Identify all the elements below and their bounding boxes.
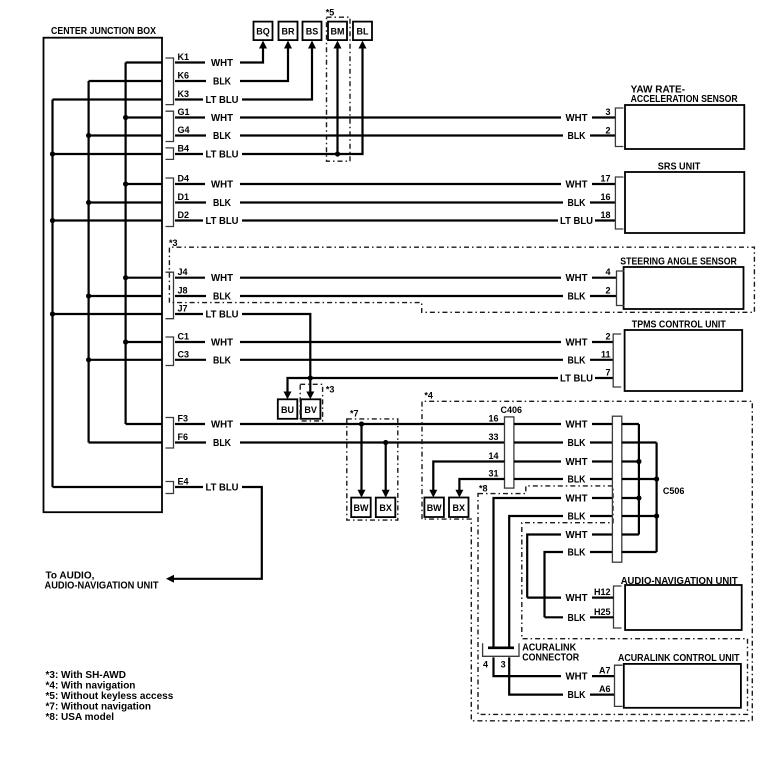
- svg-text:*3: With SH-AWD: *3: With SH-AWD: [46, 670, 126, 681]
- svg-text:WHT: WHT: [566, 113, 588, 124]
- connector BW (*7): [351, 498, 371, 517]
- svg-text:F3: F3: [178, 414, 189, 424]
- wire bus1 to D2: [53, 219, 163, 221]
- wire bus2 to J8: [89, 295, 162, 297]
- svg-text:BLK: BLK: [568, 131, 587, 142]
- option box *4 dash outline: [422, 401, 752, 721]
- acuralink bracket: [615, 665, 623, 706]
- arrow into BM: [334, 41, 342, 49]
- svg-text:17: 17: [600, 174, 610, 184]
- connector bracket K group: [166, 58, 174, 105]
- svg-text:BU: BU: [281, 405, 294, 415]
- wire K6 BLK to BR: [175, 49, 288, 82]
- svg-text:3: 3: [605, 107, 610, 117]
- svg-text:H12: H12: [594, 587, 611, 597]
- svg-text:33: 33: [488, 432, 498, 442]
- C506 right jumpers rows1-8: [622, 424, 657, 552]
- wire K3 LT BLU to BS: [175, 49, 312, 100]
- arrow into BX (*4): [455, 490, 463, 498]
- svg-text:BX: BX: [379, 503, 392, 513]
- svg-text:*4: With navigation: *4: With navigation: [46, 681, 136, 692]
- wire row8 BLK to H25: [545, 552, 613, 617]
- junction dot bus1-J7: [50, 311, 55, 316]
- svg-text:BLK: BLK: [213, 77, 232, 88]
- wire row4 pin31 to BX (*4): [459, 479, 612, 490]
- junction dot bus3-D4: [123, 181, 128, 186]
- junction dot bus1-B4: [50, 151, 55, 156]
- connector BQ: [254, 22, 273, 40]
- option box *3 dash outline (steering): [169, 247, 754, 312]
- wire D2 LT BLU to SRS pin 18: [175, 219, 615, 221]
- svg-text:WHT: WHT: [211, 113, 233, 124]
- option box *3 around BV: [300, 384, 322, 421]
- svg-text:J7: J7: [178, 304, 188, 314]
- svg-text:WHT: WHT: [566, 593, 588, 604]
- C406 connector bar: [505, 417, 514, 488]
- wire bus2 to D1: [89, 201, 162, 203]
- junction dot bus2-J8: [86, 293, 91, 298]
- svg-text:BLK: BLK: [213, 131, 232, 142]
- yaw sensor bracket: [615, 108, 623, 147]
- wire G4 BLK to yaw sensor pin 2: [175, 134, 615, 136]
- svg-text:BLK: BLK: [568, 292, 587, 303]
- svg-text:BLK: BLK: [568, 690, 587, 701]
- connector bracket D group: [166, 178, 174, 227]
- wire bus2 to C3: [89, 359, 162, 361]
- option box *7 dash outline: [347, 419, 398, 520]
- arrow into BW (*7): [358, 490, 366, 498]
- svg-text:K6: K6: [178, 71, 190, 81]
- option box *5 dash outline: [327, 17, 351, 161]
- tpms control unit box: [625, 330, 743, 391]
- svg-text:BV: BV: [304, 405, 317, 415]
- svg-text:4: 4: [605, 267, 610, 277]
- svg-text:BLK: BLK: [568, 548, 587, 559]
- svg-text:*5: *5: [326, 8, 335, 18]
- svg-text:K3: K3: [178, 89, 190, 99]
- svg-text:16: 16: [600, 192, 610, 202]
- tpms bracket: [613, 334, 621, 387]
- wire B4 LT BLU to BM and BL: [175, 49, 363, 155]
- svg-text:LT BLU: LT BLU: [206, 95, 239, 106]
- wire J4 WHT to steering angle sensor pin 4: [175, 277, 617, 279]
- svg-text:WHT: WHT: [566, 338, 588, 349]
- svg-text:WHT: WHT: [566, 273, 588, 284]
- wire D1 BLK to SRS pin 16: [175, 201, 615, 203]
- junction dot F3-BW: [359, 421, 364, 426]
- wire bus2 to G4: [89, 134, 162, 136]
- svg-text:D4: D4: [178, 174, 190, 184]
- wire bus2 to F6: [89, 441, 162, 443]
- svg-text:BX: BX: [453, 503, 466, 513]
- junction dot bus2-D1: [86, 200, 91, 205]
- wire bus3 to C1: [126, 341, 162, 343]
- arrow into BS: [308, 41, 316, 49]
- wire acuralink pin3 to A6: [509, 657, 614, 694]
- wire bus3 to D4: [126, 183, 162, 185]
- svg-text:WHT: WHT: [566, 420, 588, 431]
- svg-text:LT BLU: LT BLU: [206, 310, 239, 321]
- svg-text:11: 11: [601, 349, 611, 359]
- connector BR: [279, 22, 298, 40]
- C506 connector bar: [612, 416, 621, 562]
- wire G1 WHT to yaw sensor pin 3: [175, 116, 615, 118]
- svg-text:BW: BW: [427, 503, 442, 513]
- wire H12 WHT: [527, 596, 613, 598]
- svg-text:WHT: WHT: [211, 420, 233, 431]
- wire row6 BLK acuralink pin3: [509, 516, 612, 647]
- wire bus1 to K3: [53, 98, 163, 100]
- acuralink connector bar: [488, 646, 514, 649]
- svg-text:ACCELERATION SENSOR: ACCELERATION SENSOR: [631, 94, 739, 105]
- svg-text:BLK: BLK: [568, 613, 587, 624]
- svg-text:BQ: BQ: [256, 27, 270, 37]
- acuralink connector housing: [483, 643, 519, 656]
- junction dot busA row3: [636, 459, 641, 464]
- bus LT BLU (inner vertical 1): [51, 100, 53, 488]
- svg-text:SRS UNIT: SRS UNIT: [658, 162, 701, 173]
- connector BU: [278, 399, 298, 419]
- arrow into BU: [284, 392, 292, 400]
- bus WHT (inner vertical 3): [124, 63, 126, 425]
- svg-text:LT BLU: LT BLU: [206, 483, 239, 494]
- wire row1 WHT C406-C506: [514, 423, 613, 425]
- wire branch to BX (*7): [385, 443, 387, 491]
- connector BM: [328, 22, 347, 40]
- wire C3 BLK to TPMS pin 11: [175, 359, 613, 361]
- wire J8 BLK to steering angle sensor pin 2: [175, 295, 617, 297]
- svg-text:BLK: BLK: [213, 198, 232, 209]
- wire bus1 to B4: [53, 153, 163, 155]
- wire bus3 to F3: [126, 423, 162, 425]
- junction dot busB row4: [654, 476, 659, 481]
- svg-text:F6: F6: [178, 432, 189, 442]
- arrow to audio note: [166, 575, 174, 583]
- wire row7 WHT to H12: [527, 535, 612, 598]
- C506 bus B (BLK): [655, 443, 657, 553]
- junction dot B4-BM: [335, 151, 340, 156]
- svg-text:A6: A6: [599, 684, 611, 694]
- svg-text:4: 4: [483, 660, 488, 670]
- svg-text:2: 2: [605, 286, 610, 296]
- option box *8 dash outline: [478, 486, 748, 715]
- wire bus3 to J4: [126, 277, 162, 279]
- junction dot busA row5: [636, 495, 641, 500]
- svg-text:B4: B4: [178, 144, 190, 154]
- wire E4 LT BLU to audio: [174, 487, 262, 579]
- svg-text:WHT: WHT: [211, 338, 233, 349]
- wire bus3 to G1: [126, 116, 162, 118]
- arrow into BX (*7): [382, 490, 390, 498]
- svg-text:AUDIO-NAVIGATION UNIT: AUDIO-NAVIGATION UNIT: [45, 581, 159, 592]
- svg-text:WHT: WHT: [566, 672, 588, 683]
- svg-text:BLK: BLK: [568, 198, 587, 209]
- svg-text:LT BLU: LT BLU: [206, 150, 239, 161]
- wire bus1 to E4: [53, 486, 163, 488]
- audio-nav bracket: [614, 586, 622, 628]
- svg-text:WHT: WHT: [211, 180, 233, 191]
- connector BX (*4): [449, 498, 469, 518]
- svg-text:2: 2: [605, 126, 610, 136]
- connector bracket J group: [166, 272, 174, 319]
- svg-text:H25: H25: [594, 607, 611, 617]
- svg-text:*7: Without navigation: *7: Without navigation: [46, 702, 151, 713]
- svg-text:CONNECTOR: CONNECTOR: [522, 653, 580, 664]
- svg-text:BM: BM: [331, 27, 345, 37]
- svg-text:BS: BS: [306, 27, 319, 37]
- svg-text:BLK: BLK: [213, 438, 232, 449]
- wire F6 BLK to C406 pin 33: [175, 441, 505, 443]
- svg-text:BLK: BLK: [568, 475, 587, 486]
- arrow into BL: [359, 41, 367, 49]
- svg-text:STEERING ANGLE SENSOR: STEERING ANGLE SENSOR: [620, 257, 737, 268]
- connector bracket G group: [166, 111, 174, 141]
- svg-text:WHT: WHT: [566, 180, 588, 191]
- junction dot F6-BX: [383, 440, 388, 445]
- junction dot bus2-G4: [86, 133, 91, 138]
- svg-text:7: 7: [605, 368, 610, 378]
- svg-text:14: 14: [488, 451, 498, 461]
- svg-text:2: 2: [605, 332, 610, 342]
- svg-text:TPMS CONTROL UNIT: TPMS CONTROL UNIT: [632, 320, 726, 331]
- junction dot J7 branch: [308, 375, 313, 380]
- svg-text:31: 31: [488, 469, 498, 479]
- svg-text:16: 16: [488, 414, 498, 424]
- junction dot bus3-J4: [123, 275, 128, 280]
- svg-text:WHT: WHT: [566, 530, 588, 541]
- wire H25 BLK: [545, 616, 614, 618]
- wire acuralink pin4 to A7: [494, 657, 615, 676]
- svg-text:LT BLU: LT BLU: [560, 216, 593, 227]
- svg-text:*5: Without keyless access: *5: Without keyless access: [46, 691, 174, 702]
- svg-text:18: 18: [600, 210, 610, 220]
- wire row3 pin14 to BW (*4): [433, 462, 612, 491]
- svg-text:C406: C406: [501, 405, 523, 415]
- svg-text:CENTER JUNCTION BOX: CENTER JUNCTION BOX: [51, 26, 156, 37]
- svg-text:J8: J8: [178, 286, 188, 296]
- svg-text:*8: USA model: *8: USA model: [46, 712, 115, 723]
- connector BX (*7): [376, 498, 396, 517]
- steering bracket: [617, 271, 625, 306]
- wire K1 WHT to BQ: [175, 49, 263, 63]
- junction dot bus2-C3: [86, 357, 91, 362]
- svg-text:3: 3: [501, 660, 506, 670]
- svg-text:D1: D1: [178, 192, 190, 202]
- svg-text:BLK: BLK: [568, 512, 587, 523]
- junction dot bus3-C1: [123, 339, 128, 344]
- bus BLK (inner vertical 2): [87, 81, 89, 443]
- steering angle sensor box: [624, 267, 744, 309]
- connector BL: [353, 22, 372, 40]
- connector bracket C group: [166, 337, 174, 366]
- svg-text:BLK: BLK: [568, 355, 587, 366]
- arrow into BQ: [259, 41, 267, 49]
- svg-text:K1: K1: [178, 52, 190, 62]
- svg-text:*3: *3: [169, 238, 178, 248]
- connector BS: [303, 22, 322, 40]
- junction dot bus1-D2: [50, 218, 55, 223]
- svg-text:BL: BL: [357, 27, 369, 37]
- wire J7 LT BLU to BU BV and TPMS pin 7: [175, 314, 613, 392]
- svg-text:*4: *4: [424, 391, 433, 401]
- svg-text:WHT: WHT: [211, 58, 233, 69]
- wire branch to BW (*7): [360, 424, 362, 490]
- wire C1 WHT to TPMS pin 2: [175, 341, 613, 343]
- svg-text:BLK: BLK: [568, 438, 587, 449]
- junction dot bus3-G1: [123, 115, 128, 120]
- svg-text:WHT: WHT: [566, 457, 588, 468]
- svg-text:BR: BR: [282, 27, 295, 37]
- arrow into BR: [284, 41, 292, 49]
- svg-text:C1: C1: [178, 332, 190, 342]
- svg-text:*8: *8: [479, 484, 488, 494]
- svg-text:BLK: BLK: [213, 355, 232, 366]
- svg-text:ACURALINK CONTROL UNIT: ACURALINK CONTROL UNIT: [618, 653, 740, 664]
- connector bracket E4: [166, 482, 174, 494]
- center junction box outline: [44, 38, 163, 513]
- connector BV: [301, 399, 321, 419]
- svg-text:*3: *3: [326, 385, 335, 395]
- svg-text:E4: E4: [178, 477, 189, 487]
- connector bracket B4: [166, 148, 174, 160]
- svg-text:G4: G4: [178, 125, 190, 135]
- connector BW (*4): [424, 498, 444, 518]
- svg-text:D2: D2: [178, 210, 190, 220]
- srs bracket: [615, 177, 623, 229]
- wire bus2 to K6: [89, 80, 162, 82]
- arrow into BV: [306, 392, 314, 400]
- wire row2 BLK C406-C506: [514, 441, 613, 443]
- wire bus1 to J7: [53, 313, 163, 315]
- arrow into BW (*4): [429, 490, 437, 498]
- C506 bus A (WHT): [638, 424, 640, 535]
- audio-navigation unit box: [625, 585, 742, 630]
- svg-text:LT BLU: LT BLU: [206, 216, 239, 227]
- yaw rate-acceleration sensor box: [625, 105, 744, 149]
- svg-text:BLK: BLK: [213, 292, 232, 303]
- svg-text:J4: J4: [178, 267, 188, 277]
- junction dot busB row6: [654, 513, 659, 518]
- wire bus3 to K1: [126, 61, 162, 63]
- wire row5 WHT acuralink pin4: [494, 498, 613, 647]
- connector bracket F group: [166, 418, 174, 449]
- srs unit box: [625, 172, 744, 233]
- svg-text:C3: C3: [178, 349, 190, 359]
- svg-text:LT BLU: LT BLU: [560, 374, 593, 385]
- svg-text:WHT: WHT: [211, 273, 233, 284]
- svg-text:*7: *7: [350, 408, 359, 418]
- svg-text:C506: C506: [663, 486, 685, 496]
- svg-text:A7: A7: [599, 666, 611, 676]
- wire D4 WHT to SRS pin 17: [175, 183, 615, 185]
- svg-text:BW: BW: [354, 503, 369, 513]
- svg-text:G1: G1: [178, 107, 190, 117]
- acuralink control unit box: [624, 664, 741, 708]
- wire F3 WHT to C406 pin 16: [175, 423, 505, 425]
- svg-text:WHT: WHT: [566, 494, 588, 505]
